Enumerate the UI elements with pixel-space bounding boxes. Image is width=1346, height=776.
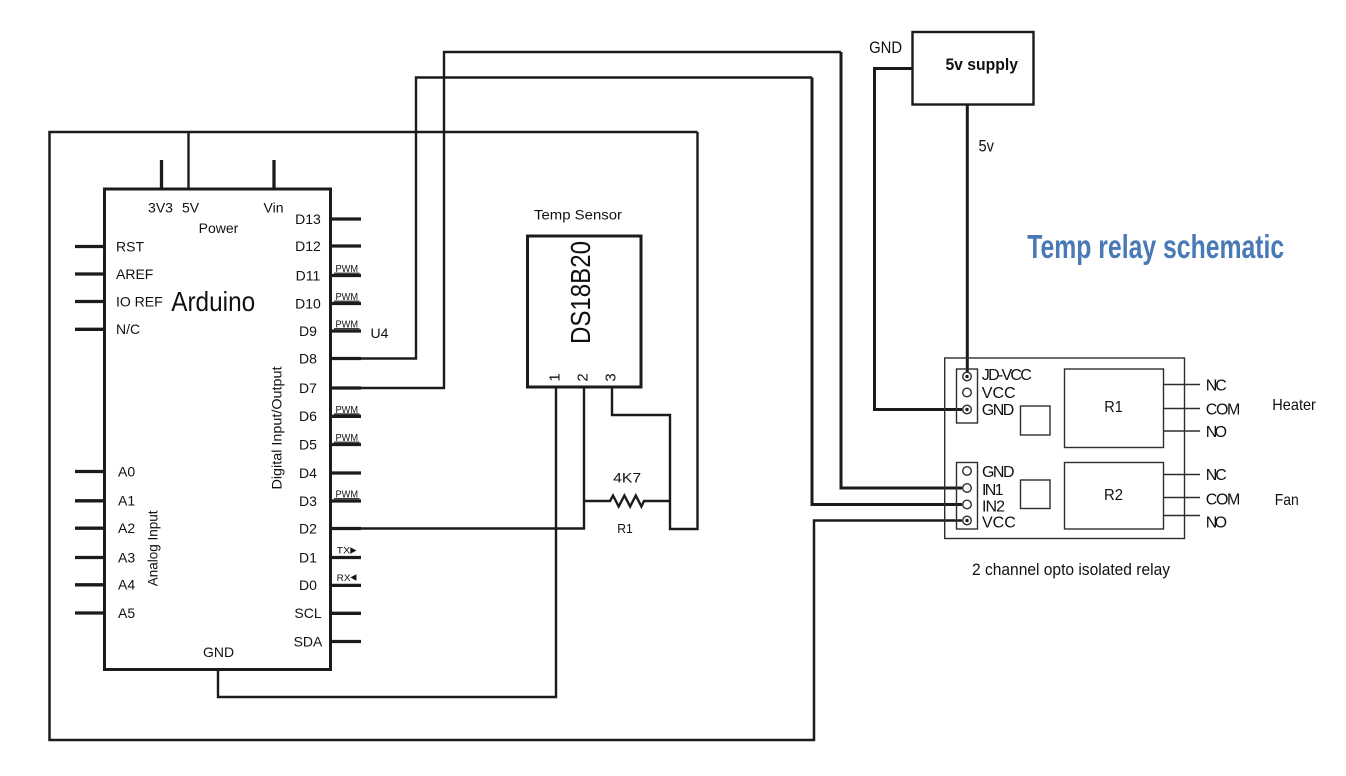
pin A4 stub <box>75 583 105 586</box>
pin N/C stub <box>75 328 105 331</box>
resistor R1 4K7 zigzag <box>584 496 670 507</box>
svg-text:5v supply: 5v supply <box>945 55 1018 74</box>
pin IO REF stub <box>75 300 105 303</box>
svg-text:Temp Sensor: Temp Sensor <box>534 207 622 223</box>
pin line R2 NC <box>1164 474 1201 476</box>
svg-text:DS18B20: DS18B20 <box>565 241 596 344</box>
5v supply PS1 body <box>913 32 1034 105</box>
relay R1 box <box>1065 369 1164 448</box>
pin D12 stub <box>330 244 361 247</box>
svg-text:D2: D2 <box>299 520 317 536</box>
svg-text:D7: D7 <box>299 380 317 396</box>
svg-text:Digital Input/Output: Digital Input/Output <box>269 366 284 489</box>
svg-text:NC: NC <box>1206 378 1227 395</box>
svg-text:2: 2 <box>575 373 592 381</box>
svg-text:D10: D10 <box>295 295 321 311</box>
wire D7 to relay IN1 <box>359 52 841 388</box>
svg-text:TX: TX <box>337 546 351 556</box>
svg-text:Temp relay schematic: Temp relay schematic <box>1027 228 1284 265</box>
pin A0 stub <box>75 470 105 473</box>
wire 5V branch right: down x=697.5, to resistor node, to sensor pin 3 <box>612 132 698 529</box>
wire D8 to relay IN2 <box>359 78 812 359</box>
junction dot VCC bottom <box>965 519 968 522</box>
svg-text:D9: D9 <box>299 323 317 339</box>
pin D2 stub <box>330 527 361 530</box>
pin A3 stub <box>75 556 105 559</box>
svg-text:AREF: AREF <box>116 266 153 282</box>
wire DQ signal Arduino D2 to sensor pin 2 <box>359 386 584 529</box>
wire 5V riser from Arduino 5V pin to top rail <box>187 132 189 190</box>
svg-text:GND: GND <box>982 464 1015 481</box>
svg-text:Analog Input: Analog Input <box>146 510 161 586</box>
svg-text:SDA: SDA <box>294 633 323 649</box>
svg-text:A0: A0 <box>118 463 135 479</box>
svg-text:NC: NC <box>1206 467 1227 484</box>
svg-text:U4: U4 <box>371 325 389 341</box>
svg-text:A2: A2 <box>118 520 135 536</box>
RX arrow <box>350 574 356 580</box>
svg-text:D5: D5 <box>299 436 317 452</box>
opto coupler square 1 <box>1021 406 1051 435</box>
wire 5V rail loop: top rail, left rail, bottom rail, riser to relay VCC <box>50 132 963 740</box>
svg-text:D0: D0 <box>299 577 317 593</box>
pin D4 stub <box>330 471 361 474</box>
svg-text:1: 1 <box>546 373 563 381</box>
svg-text:RX: RX <box>337 573 351 583</box>
svg-text:IN1: IN1 <box>982 482 1004 499</box>
pin A1 stub <box>75 499 105 502</box>
pin D11 stub <box>330 274 361 277</box>
pin RST stub <box>75 245 105 248</box>
pin GND circle (top) <box>963 405 972 414</box>
svg-text:SCL: SCL <box>294 605 321 621</box>
pin A5 stub <box>75 611 105 614</box>
svg-text:D12: D12 <box>295 238 321 254</box>
svg-text:VCC: VCC <box>982 515 1016 532</box>
svg-text:RST: RST <box>116 238 144 254</box>
svg-text:2 channel opto isolated relay: 2 channel opto isolated relay <box>972 560 1170 579</box>
pin 3V3 stub <box>160 160 163 189</box>
pin D8 stub <box>330 357 361 360</box>
pin D13 stub <box>330 217 361 220</box>
pin line R2 COM <box>1164 497 1201 499</box>
svg-text:A1: A1 <box>118 493 135 509</box>
svg-text:5v: 5v <box>978 137 994 156</box>
svg-text:VCC: VCC <box>982 385 1016 402</box>
pin SCL stub <box>330 612 361 615</box>
svg-text:JD-VCC: JD-VCC <box>982 367 1032 384</box>
pin D7 stub <box>330 386 361 389</box>
svg-text:4K7: 4K7 <box>613 469 641 485</box>
pin D10 stub <box>330 302 361 305</box>
wire ground: Arduino GND to sensor pin 1 <box>218 386 556 697</box>
svg-text:GND: GND <box>982 402 1015 419</box>
Temp Sensor U2 body <box>528 236 642 387</box>
pin GND circle (bottom) <box>963 467 972 476</box>
svg-text:Arduino: Arduino <box>171 286 255 317</box>
pin D6 stub <box>330 415 361 418</box>
svg-text:GND: GND <box>869 39 902 57</box>
relay top header J1 <box>957 369 978 423</box>
svg-text:IN2: IN2 <box>982 499 1005 516</box>
Arduino U1 body <box>105 189 331 670</box>
svg-text:GND: GND <box>203 644 234 660</box>
svg-text:R1: R1 <box>1104 399 1123 416</box>
svg-text:D1: D1 <box>299 549 317 565</box>
pin Vin stub <box>272 160 275 189</box>
pin line R2 NO <box>1164 515 1201 517</box>
relay R2 box <box>1065 463 1164 530</box>
svg-text:D8: D8 <box>299 350 317 366</box>
svg-text:Vin: Vin <box>264 200 284 216</box>
pin IN2 circle <box>963 500 972 509</box>
svg-text:Heater: Heater <box>1272 397 1316 414</box>
wire supply GND to relay GND <box>875 69 963 410</box>
svg-text:3V3: 3V3 <box>148 200 173 216</box>
svg-text:COM: COM <box>1206 491 1241 508</box>
junction dot JD-VCC <box>965 375 968 378</box>
pin VCC circle (top) <box>963 388 972 397</box>
pin SDA stub <box>330 640 361 643</box>
pin A2 stub <box>75 527 105 530</box>
pin line R1 NO <box>1164 430 1201 432</box>
svg-text:R2: R2 <box>1104 487 1123 504</box>
svg-text:D11: D11 <box>296 267 321 283</box>
pin D0 stub <box>330 584 361 587</box>
svg-text:D6: D6 <box>299 408 317 424</box>
svg-text:R1: R1 <box>617 522 633 536</box>
wire supply 5v to relay JD-VCC <box>966 103 969 373</box>
pin D5 stub <box>330 443 361 446</box>
svg-text:A5: A5 <box>118 605 135 621</box>
pin D9 stub <box>330 329 361 332</box>
pin VCC circle (bottom) <box>963 516 972 525</box>
svg-text:D13: D13 <box>295 211 321 227</box>
svg-text:A3: A3 <box>118 549 135 565</box>
pin line R1 NC <box>1164 384 1201 386</box>
relay module U3 outline <box>945 358 1185 539</box>
pin D3 stub <box>330 499 361 502</box>
pin AREF stub <box>75 272 105 275</box>
svg-text:Fan: Fan <box>1275 492 1299 509</box>
svg-text:A4: A4 <box>118 577 135 593</box>
svg-text:COM: COM <box>1206 402 1241 419</box>
opto coupler square 2 <box>1021 480 1051 509</box>
relay bottom header J2 <box>957 463 978 530</box>
svg-text:5V: 5V <box>182 200 200 216</box>
svg-text:NO: NO <box>1206 424 1227 441</box>
svg-text:3: 3 <box>603 373 620 381</box>
svg-text:IO REF: IO REF <box>116 293 163 309</box>
pin IN1 circle <box>963 484 972 493</box>
svg-text:NO: NO <box>1206 515 1227 532</box>
svg-text:D4: D4 <box>299 465 317 481</box>
svg-text:Power: Power <box>199 220 239 236</box>
svg-text:D3: D3 <box>299 493 317 509</box>
pin JD-VCC circle <box>963 372 972 381</box>
pin line R1 COM <box>1164 408 1201 410</box>
svg-text:N/C: N/C <box>116 321 140 337</box>
pin D1 stub <box>330 556 361 559</box>
TX arrow <box>350 547 356 553</box>
junction dot GND top <box>965 408 968 411</box>
